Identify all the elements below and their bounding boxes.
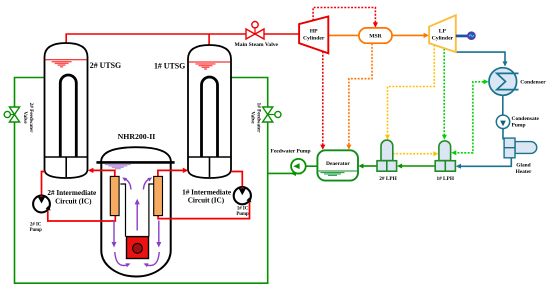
wire red dashed HP to MSR: [313, 8, 375, 24]
svg-text:Deaerator: Deaerator: [326, 161, 350, 167]
riser channel left: [120, 184, 125, 237]
wire feedwater main loop: [15, 78, 268, 284]
wire steam riser 1# UTSG: [208, 34, 210, 46]
wire condensate pump to gland heater: [502, 121, 504, 140]
reactor water level hatch: [105, 165, 131, 169]
main steam valve: [254, 28, 256, 34]
svg-text:Pump: Pump: [30, 228, 43, 233]
reactor core: [127, 237, 149, 259]
svg-text:Feedwater Pump: Feedwater Pump: [270, 148, 310, 154]
LP cylinder: [429, 15, 456, 52]
purple flow arrow bottom left curve: [115, 252, 127, 266]
wire deaerator to feedwater pump: [306, 165, 318, 167]
svg-text:1# LPH: 1# LPH: [436, 176, 454, 182]
generator shaft: [456, 35, 468, 38]
wire yellow dashed LP to 2# LPH: [388, 45, 435, 136]
svg-text:Main Steam Valve: Main Steam Valve: [235, 42, 279, 48]
svg-text:Condensate: Condensate: [512, 116, 540, 122]
2# IC pump: [33, 196, 50, 213]
wire teal LP to condenser: [456, 52, 505, 62]
HP cylinder: [299, 17, 328, 54]
label 1# feedwater valve: [249, 103, 261, 134]
svg-text:Gland: Gland: [516, 162, 530, 168]
svg-text:LP: LP: [439, 29, 447, 35]
2# LPH: [381, 140, 393, 161]
1# UTSG U-tube: [202, 77, 218, 157]
generator: [468, 32, 476, 40]
svg-text:Condenser: Condenser: [520, 80, 546, 86]
svg-text:Valve: Valve: [249, 111, 255, 124]
1# IC pump: [234, 187, 251, 204]
svg-text:Valve: Valve: [22, 111, 28, 124]
svg-text:2# Intermediate: 2# Intermediate: [47, 189, 96, 197]
1# feedwater valve: [268, 114, 275, 116]
gland heater: [515, 142, 537, 154]
svg-text:2# UTSG: 2# UTSG: [90, 61, 121, 70]
svg-text:Cylinder: Cylinder: [303, 35, 325, 41]
1# LPH: [439, 141, 451, 161]
reactor flange: [96, 161, 174, 164]
2# UTSG vessel: [45, 43, 88, 178]
svg-text:Heater: Heater: [516, 169, 532, 175]
svg-text:Circuit (IC): Circuit (IC): [55, 197, 92, 205]
1# UTSG tube sheet: [189, 156, 231, 158]
1# UTSG vessel: [188, 45, 231, 178]
purple flow arrow downcomer left: [113, 221, 115, 243]
label 2# feedwater valve: [22, 103, 34, 134]
1# UTSG water level: [189, 61, 230, 63]
deaerator: [317, 150, 358, 180]
purple flow arrow top right: [143, 179, 150, 190]
2# UTSG U-tube: [60, 75, 76, 157]
wire condenser to condensate pump: [502, 95, 504, 130]
wire 2# IC cold leg: [42, 172, 45, 201]
wire red dashed HP to deaerator: [322, 51, 324, 146]
reactor vessel NHR200-II: [101, 162, 170, 276]
wire gland heater to 1# LPH: [460, 158, 512, 167]
riser channel right: [149, 184, 154, 237]
wire 1# LPH to 2# LPH: [401, 165, 436, 167]
wire 1# IC cold leg: [231, 172, 242, 191]
svg-text:1# IC: 1# IC: [237, 206, 249, 211]
2# feedwater valve: [10, 114, 14, 116]
feedwater pump: [291, 159, 306, 174]
svg-text:2# LPH: 2# LPH: [379, 176, 397, 182]
wire 1# IC hot leg: [158, 170, 186, 176]
heat exchanger 2# (left): [110, 176, 119, 215]
svg-text:MSR: MSR: [369, 34, 382, 40]
2# UTSG water level: [45, 59, 86, 61]
purple flow arrow bottom right curve: [148, 252, 160, 266]
svg-text:Pump: Pump: [512, 123, 526, 129]
wire yellow dashed drain 2# to 1# LPH: [393, 153, 434, 155]
heat exchanger 1# (right): [154, 176, 163, 215]
wire feedwater pump outlet: [268, 172, 302, 174]
svg-text:Circuit (IC): Circuit (IC): [188, 197, 225, 205]
reactor dome: [101, 147, 171, 162]
wire 2# IC hot leg: [90, 170, 115, 176]
purple flow arrow top left: [125, 179, 132, 190]
wire orange HP to MSR: [328, 34, 359, 36]
svg-text:1# Intermediate: 1# Intermediate: [182, 188, 231, 196]
condensate pump: [496, 115, 509, 128]
svg-text:Cylinder: Cylinder: [432, 35, 454, 41]
wire orange MSR to LP: [392, 34, 425, 36]
svg-text:Pump: Pump: [236, 212, 249, 217]
svg-text:2# IC: 2# IC: [30, 222, 42, 227]
purple flow arrow downcomer right: [158, 221, 160, 243]
svg-text:HP: HP: [310, 29, 318, 35]
wire green dashed LP to 1# LPH: [443, 49, 445, 136]
2# UTSG tube sheet: [45, 156, 87, 158]
MSR: [359, 28, 392, 43]
wire main steam header: [66, 34, 246, 44]
svg-text:NHR200-II: NHR200-II: [118, 132, 156, 141]
svg-text:1# UTSG: 1# UTSG: [154, 62, 185, 71]
purple flow arrow center up: [136, 203, 138, 231]
wire green dashed to condenser and 1# LPH: [456, 82, 483, 153]
wire orange dashed MSR to deaerator: [349, 44, 372, 147]
wire 2# LPH to deaerator: [362, 165, 377, 167]
wire valve to HP cylinder: [264, 33, 300, 35]
condenser: [489, 68, 517, 96]
